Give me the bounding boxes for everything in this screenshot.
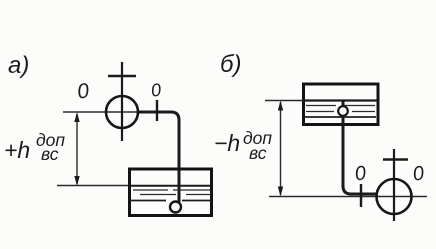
pump valve cross bar (figure b) bbox=[383, 158, 408, 161]
wire: pipe from tank down + bend to pump (figure b) bbox=[343, 101, 378, 194]
arrowhead down (figure b) bbox=[278, 187, 283, 197]
wire: pump centerline 0-0 (figure a) bbox=[63, 111, 143, 113]
svg-text:вс: вс bbox=[41, 144, 59, 164]
wire: pump centerline 0-0 (figure b) bbox=[269, 196, 427, 198]
wire: upper reference line at water level (figure b) bbox=[265, 100, 303, 102]
water shading dashes (figure a) bbox=[133, 189, 168, 191]
pump shaft vertical line (figure a) bbox=[121, 62, 123, 141]
arrowhead down (figure a) bbox=[74, 176, 79, 186]
arrowhead up (figure a) bbox=[74, 112, 79, 122]
pump circle (figure a) bbox=[106, 96, 138, 128]
water surface line in tank (figure b) bbox=[303, 99, 378, 101]
dimension line -h (figure b) bbox=[280, 102, 282, 195]
svg-text:вс: вс bbox=[249, 143, 267, 163]
svg-text:−h: −h bbox=[214, 130, 240, 156]
tank (figure b) bbox=[304, 84, 379, 125]
svg-text:б): б) bbox=[220, 51, 242, 78]
wire: suction pipe horizontal + bend + drop into tank (figure a) bbox=[138, 112, 179, 202]
node: datum tick right of pump (figure a) bbox=[156, 100, 158, 121]
foot valve circle in tank (figure a) bbox=[170, 202, 181, 213]
pump valve cross bar (figure a) bbox=[108, 75, 136, 78]
svg-text:а): а) bbox=[8, 52, 29, 79]
wire: lower reference line at water level (figure a) bbox=[57, 185, 130, 187]
svg-text:+h: +h bbox=[4, 137, 30, 163]
node: datum tick left of pump (figure b) bbox=[360, 184, 362, 207]
pump circle (figure b) bbox=[377, 179, 412, 214]
tank (figure a) bbox=[130, 169, 212, 216]
water surface line in tank (figure a) bbox=[129, 185, 212, 187]
water shading dashes (figure b) bbox=[306, 105, 336, 107]
pump shaft vertical line (figure b) bbox=[393, 149, 395, 221]
inlet circle in tank (figure b) bbox=[338, 106, 348, 116]
arrowhead up (figure b) bbox=[278, 101, 283, 111]
dimension line +h (figure a) bbox=[76, 114, 78, 184]
